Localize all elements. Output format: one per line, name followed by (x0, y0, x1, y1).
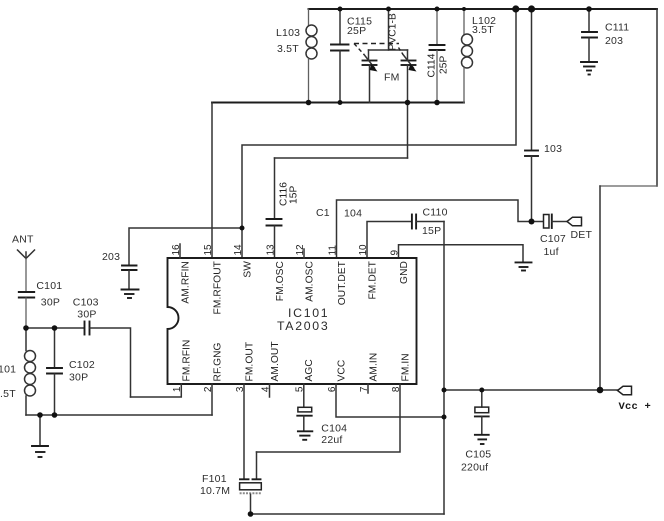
svg-text:C105: C105 (465, 449, 491, 461)
junction top rail at SW riser (512, 5, 519, 12)
svg-text:C101: C101 (36, 280, 62, 292)
svg-text:25P: 25P (439, 55, 450, 74)
svg-text:PVC1-B: PVC1-B (388, 13, 399, 51)
svg-text:L101: L101 (0, 364, 16, 376)
svg-text:30P: 30P (69, 372, 88, 384)
junction tank rail at L103 (306, 100, 312, 106)
svg-text:OUT.DET: OUT.DET (337, 261, 348, 305)
wire bottom net F101 to Vcc vertical (251, 513, 445, 515)
capacitor 203 (at pin 14/SW) (102, 228, 242, 289)
svg-text:FM.IN: FM.IN (400, 353, 411, 381)
pin 2 wire RF.GNG (203, 342, 224, 415)
svg-text:16: 16 (171, 244, 182, 256)
pin 9 label GND (389, 250, 410, 284)
svg-text:GND: GND (399, 261, 410, 284)
capacitor C116 on FM.OSC pin13 line (267, 158, 408, 258)
connector DET output tag (567, 217, 592, 241)
svg-text:14: 14 (233, 244, 244, 256)
inductor L103 (276, 9, 317, 103)
ground below C111 (581, 62, 597, 75)
wire OUT.DET pin11 to detector node (337, 200, 532, 258)
svg-text:C104: C104 (321, 423, 347, 435)
svg-text:220uf: 220uf (461, 462, 488, 474)
svg-text:VCC: VCC (336, 360, 347, 382)
svg-text:ANT: ANT (12, 234, 34, 246)
wire antenna junction row (26, 327, 84, 329)
svg-text:IC101: IC101 (288, 306, 329, 320)
svg-text:1uf: 1uf (544, 246, 559, 258)
svg-text:11: 11 (327, 245, 338, 256)
svg-text:3.5T: 3.5T (472, 24, 494, 36)
wire Vcc rail (444, 389, 600, 391)
junction antenna net at C101 (23, 325, 29, 331)
svg-text:3.5T: 3.5T (277, 43, 299, 55)
ground below 203 cap (122, 290, 139, 299)
svg-text:C102: C102 (69, 359, 95, 371)
svg-text:FM.DET: FM.DET (367, 261, 378, 300)
capacitor C102 (47, 328, 95, 415)
svg-text:3.5T: 3.5T (0, 388, 16, 400)
svg-text:AM.OSC: AM.OSC (304, 261, 315, 302)
svg-text:Vcc +: Vcc + (619, 401, 652, 413)
junction detector node at C107 (529, 219, 535, 225)
svg-text:AM.IN: AM.IN (368, 353, 379, 382)
svg-text:22uf: 22uf (321, 434, 342, 446)
svg-text:2: 2 (203, 386, 214, 392)
pin 13 label FM.OSC (265, 244, 286, 301)
svg-text:7: 7 (359, 386, 370, 392)
node C1 104 labels (316, 207, 362, 220)
IC U1 TA2003 body (168, 258, 417, 384)
svg-text:30P: 30P (77, 309, 96, 321)
svg-text:L103: L103 (276, 27, 300, 39)
capacitor C107 (detector output coupling) (534, 215, 567, 259)
pin 12 stub AM.OSC (295, 244, 316, 302)
svg-text:203: 203 (102, 251, 120, 263)
svg-text:10: 10 (358, 244, 369, 256)
svg-text:C114: C114 (427, 53, 438, 77)
svg-text:3: 3 (235, 386, 246, 392)
wire C110 right side down to Vcc net and bottom wire (443, 222, 445, 515)
inductor L102 (462, 9, 497, 103)
wire right rail upper segment (656, 9, 658, 186)
svg-text:5: 5 (295, 386, 306, 392)
junction Vcc rail at C110 riser (442, 388, 447, 393)
pin 14 label SW (233, 244, 254, 278)
svg-text:C1: C1 (316, 207, 330, 219)
svg-text:15P: 15P (422, 225, 441, 237)
connector Vcc + tag (600, 386, 651, 413)
junction tank rail at VC1 osc section (405, 100, 411, 106)
svg-text:RF.GNG: RF.GNG (212, 342, 223, 381)
svg-text:25P: 25P (347, 25, 366, 37)
wire top supply rail (309, 8, 658, 10)
svg-text:SW: SW (242, 261, 253, 278)
capacitor C104 electrolytic (297, 407, 347, 446)
pin 3 wire FM.OUT (235, 342, 256, 479)
svg-text:9: 9 (389, 250, 400, 256)
variable capacitor VC1 section A (left, FM RF) (363, 55, 378, 103)
variable capacitor VC1 section B (right, FM OSC) (399, 48, 417, 72)
capacitor C101 (19, 280, 63, 328)
svg-text:30P: 30P (41, 297, 60, 309)
capacitor C103 (73, 296, 131, 397)
svg-text:FM.OUT: FM.OUT (244, 342, 255, 382)
variable capacitor VC1-B gang (FM tuning, two sections) (354, 9, 408, 84)
svg-text:104: 104 (344, 208, 362, 220)
svg-text:13: 13 (265, 244, 276, 256)
svg-text:C103: C103 (73, 296, 99, 308)
inductor L101 (0, 328, 36, 415)
svg-text:6: 6 (327, 386, 338, 392)
svg-text:TA2003: TA2003 (277, 319, 329, 333)
junction F101 bottom node (248, 511, 254, 517)
pin 11 label OUT.DET (327, 245, 348, 306)
pin 7 stub AM.IN (359, 353, 380, 393)
svg-text:C107: C107 (540, 233, 566, 245)
junction top rail at C111 (586, 6, 592, 12)
svg-text:FM.RFIN: FM.RFIN (182, 339, 193, 381)
pin 5 wire AGC (295, 359, 316, 407)
junction top rail at VC1-B stem (386, 7, 391, 12)
junction tank rail at C115 (338, 100, 343, 105)
svg-text:C110: C110 (423, 207, 448, 219)
capacitor C105 electrolytic (461, 390, 491, 474)
svg-text:15P: 15P (289, 185, 300, 204)
antenna ANT (12, 234, 35, 292)
junction C102 bottom (52, 412, 58, 418)
svg-text:10.7M: 10.7M (200, 485, 230, 497)
svg-text:AM.RFIN: AM.RFIN (180, 261, 191, 304)
svg-text:AM.OUT: AM.OUT (270, 341, 281, 381)
svg-text:8: 8 (391, 386, 402, 392)
svg-text:1: 1 (172, 386, 183, 392)
capacitor 103 (top right coupling) (525, 9, 562, 222)
junction pin14 line at 203 cap wire (240, 226, 245, 231)
pin 6 wire VCC (327, 360, 444, 417)
svg-text:AGC: AGC (304, 359, 315, 381)
capacitor C110 with wire from pin10 FM.DET (367, 207, 448, 259)
ground below pin9 wire (516, 262, 532, 270)
svg-text:FM.RFOUT: FM.RFOUT (212, 261, 223, 314)
wire GND pin9 to ground (399, 245, 524, 262)
ground bottom-left (32, 415, 48, 457)
svg-text:FM.OSC: FM.OSC (275, 261, 286, 301)
pin 1 wire FM.RFIN (131, 339, 193, 397)
pin 4 stub AM.OUT (260, 341, 281, 397)
pin 8 wire FM.IN (257, 353, 412, 452)
junction antenna net at C102 top (52, 325, 58, 331)
wire right rail jog at DET level (600, 185, 657, 187)
junction Vcc rail at C105 (479, 388, 484, 393)
junction top rail at 103 cap riser (528, 5, 535, 12)
pin 16 stub AM.RFIN (171, 244, 192, 304)
wire pin15 FM.RFOUT up to tank rail (211, 103, 213, 259)
junction top rail at L102 (462, 7, 466, 11)
capacitor C114 (427, 9, 450, 103)
wire bottom-left net to pin 2 (26, 414, 212, 416)
svg-text:FM: FM (384, 72, 400, 84)
svg-text:4: 4 (260, 386, 271, 392)
ceramic filter F101 10.7M (200, 452, 261, 514)
svg-text:C111: C111 (605, 22, 629, 34)
junction pin6 wire at riser (442, 415, 447, 420)
pin 15 label FM.RFOUT (203, 244, 224, 314)
wire right varcap lead down through tank rail to FM.OSC wire (407, 65, 409, 158)
pin 10 label FM.DET (358, 244, 379, 300)
junction Vcc rail at right rail (597, 387, 604, 394)
svg-text:203: 203 (605, 35, 623, 47)
wire right rail lower segment to Vcc node (599, 186, 601, 390)
wire SW pin14 up to top rail (242, 9, 516, 258)
svg-text:103: 103 (544, 143, 562, 155)
junction ground tap bottom-left (37, 412, 43, 418)
ground below C105 (475, 435, 489, 444)
svg-text:12: 12 (295, 244, 306, 256)
svg-text:DET: DET (571, 229, 593, 241)
junction tank rail at C114 (434, 100, 440, 106)
junction top rail at C115 (338, 7, 343, 12)
wire FM tank bottom rail (212, 102, 464, 104)
capacitor C111 (582, 9, 629, 62)
svg-text:15: 15 (203, 244, 214, 256)
svg-text:F101: F101 (202, 473, 227, 485)
ground below C104 (298, 431, 312, 440)
junction top rail at C114 (435, 7, 440, 12)
capacitor C115 (331, 9, 372, 103)
